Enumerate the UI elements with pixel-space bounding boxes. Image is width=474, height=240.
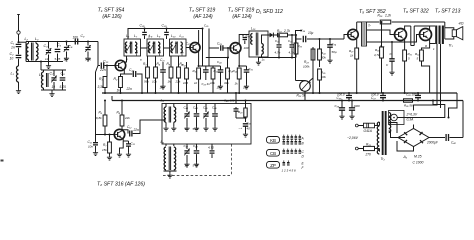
svg-text:100k: 100k [303, 65, 310, 69]
svg-text:C₃₆: C₃₆ [337, 96, 343, 100]
wire AGC line [206, 47, 229, 59]
svg-text:R₂₉: R₂₉ [378, 14, 384, 18]
svg-text:10: 10 [185, 127, 189, 131]
ground tank1 [46, 62, 51, 69]
svg-text:5-25: 5-25 [85, 58, 91, 62]
resistor R1 [98, 66, 108, 89]
trimmer capacitor C6 [64, 40, 73, 61]
label transistor T4 type [228, 8, 255, 20]
label transistor T2 type [97, 181, 145, 187]
wire tank2 bottom [41, 89, 66, 91]
svg-text:2,2k: 2,2k [384, 14, 391, 18]
svg-text:(AF 126): (AF 126) [102, 14, 122, 20]
svg-text:L₁₀: L₁₀ [171, 34, 176, 38]
wire right rail drop [462, 101, 464, 138]
svg-text:2=6,3V: 2=6,3V [406, 113, 418, 117]
bridge rectifier D2 [397, 125, 429, 152]
svg-text:R₂₂ 5k: R₂₂ 5k [297, 94, 306, 98]
wire driver sec to T7 base [367, 35, 420, 43]
wire T2 emitter [117, 138, 123, 157]
capacitor C35 [296, 29, 317, 81]
resistor R20 [294, 34, 303, 58]
svg-text:C₃₁: C₃₁ [249, 67, 253, 71]
svg-text:5-25: 5-25 [60, 85, 67, 89]
svg-text:C₆: C₆ [69, 45, 73, 49]
trimmer capacitor C43 [184, 104, 190, 132]
wire detector to volume [296, 31, 303, 36]
svg-text:5-35: 5-35 [193, 127, 199, 131]
potentiometer R22 [296, 81, 311, 101]
label transistor T5 type [359, 9, 386, 15]
svg-text:100,0: 100,0 [337, 93, 345, 97]
svg-text:T₂ SFT 316 (AF 126): T₂ SFT 316 (AF 126) [97, 181, 145, 187]
wire lamp rail [404, 99, 445, 117]
resistor R3 [143, 56, 149, 93]
capacitor C32 [275, 34, 282, 58]
resistor R7 [102, 133, 112, 160]
IF transformer L6 L7 [124, 34, 141, 56]
resistor R31 [403, 50, 412, 94]
svg-text:10µ: 10µ [308, 31, 314, 35]
wire T5 emitter [356, 38, 358, 48]
wire osc base left [96, 135, 106, 142]
svg-text:100: 100 [244, 46, 249, 50]
svg-text:A: A [301, 137, 304, 141]
svg-text:3,3k: 3,3k [98, 85, 104, 89]
resistor R4 [152, 56, 161, 94]
svg-text:C₄₆: C₄₆ [212, 106, 217, 110]
svg-text:4,7n: 4,7n [275, 51, 281, 55]
resistor R10 [193, 68, 201, 93]
trimmer capacitor C47 [184, 144, 190, 168]
svg-text:1 2 3 4 5 6: 1 2 3 4 5 6 [282, 169, 297, 173]
svg-text:C₄₈: C₄₈ [193, 144, 198, 148]
band switch row KB [267, 135, 305, 146]
svg-text:T₆ SFT 322: T₆ SFT 322 [403, 9, 429, 15]
label supply voltage [347, 136, 359, 140]
wire R6 to collector [121, 126, 128, 134]
capacitor C2 [10, 52, 22, 61]
svg-text:C₄₅: C₄₅ [203, 106, 208, 110]
resistor R19 [277, 29, 296, 37]
node antenna tap [17, 41, 26, 43]
svg-text:40: 40 [247, 127, 251, 131]
wire T5 collector [356, 22, 358, 31]
capacitor C1 [11, 41, 22, 50]
svg-text:50µ: 50µ [332, 50, 337, 54]
resistor R14 [233, 68, 242, 94]
wire T7 collector [414, 26, 429, 30]
capacitor C39 [335, 99, 346, 119]
svg-text:1k: 1k [194, 81, 198, 85]
svg-text:C₄₀: C₄₀ [451, 141, 457, 145]
svg-text:C₈: C₈ [61, 72, 66, 76]
svg-text:KB: KB [270, 138, 276, 143]
svg-text:R₃₀: R₃₀ [375, 48, 380, 52]
svg-text:1000: 1000 [354, 104, 361, 108]
resistor R32 [415, 50, 430, 93]
wire rail supply [112, 100, 463, 102]
label lamp [406, 113, 418, 122]
svg-text:10: 10 [10, 57, 14, 61]
page mark [1, 160, 4, 162]
resistor R5 [96, 111, 107, 127]
svg-text:C₂₈: C₂₈ [217, 42, 223, 46]
capacitor C48b [193, 144, 200, 168]
inductor L6 [161, 140, 177, 178]
wire battery to winding [379, 122, 381, 152]
wire base T1 [105, 64, 116, 66]
svg-text:10: 10 [52, 85, 56, 89]
resistor R30 bias [374, 21, 383, 93]
capacitor C33 [288, 34, 295, 58]
wire speaker loop [445, 22, 454, 39]
wire T4 collector [239, 35, 249, 45]
lamp box [389, 111, 405, 125]
wire pot wiper [310, 47, 314, 81]
svg-text:ZP: ZP [270, 163, 276, 168]
wire interstage [209, 47, 219, 49]
svg-text:100: 100 [183, 81, 188, 85]
svg-text:T₇ SFT 213: T₇ SFT 213 [435, 9, 461, 15]
oscillator injection line [96, 66, 99, 142]
capacitor C21 [160, 58, 166, 90]
svg-text:C 1000: C 1000 [413, 161, 424, 165]
svg-text:C₃₄: C₃₄ [332, 42, 337, 46]
switch position numbers [282, 169, 297, 173]
svg-text:T₁ SFT 354: T₁ SFT 354 [98, 8, 125, 14]
wire driver sec to T6 base [367, 30, 395, 35]
svg-text:L₄: L₄ [39, 73, 43, 77]
output transformer Tr1 [430, 26, 454, 48]
wire rail ground [102, 92, 457, 94]
capacitor C40 electrolytic [426, 134, 463, 145]
svg-text:R: R [425, 44, 427, 48]
label transistor T3 type [189, 8, 216, 20]
wire T6 collector [405, 26, 411, 30]
battery terminal lower [355, 147, 363, 150]
resistor R28 [364, 143, 380, 157]
svg-text:L₃: L₃ [35, 37, 39, 41]
svg-text:L₁₃: L₁₃ [251, 27, 256, 31]
capacitor C30 [243, 34, 251, 50]
svg-text:G41A: G41A [364, 129, 373, 133]
resistor R13 [224, 58, 234, 94]
ferrite core [32, 43, 34, 61]
wire to C10 [98, 42, 100, 66]
antenna input wire [17, 14, 20, 42]
wire tank1 top [26, 41, 63, 43]
resistor R6 [117, 111, 131, 127]
wire T4 emitter [238, 52, 240, 66]
resistor R2 [114, 69, 125, 93]
wire ground rail right drop [447, 93, 457, 119]
label speaker impedance [459, 22, 464, 26]
svg-text:C₁₀: C₁₀ [103, 60, 109, 64]
capacitor C29 [162, 24, 169, 40]
inductor L5 [161, 99, 177, 132]
svg-text:10: 10 [185, 164, 189, 168]
svg-text:−+: −+ [239, 126, 243, 130]
wire rail left drop [111, 96, 113, 101]
driver transformer Tr primary [357, 22, 367, 46]
IF transformer L10 L11 [170, 34, 187, 56]
capacitor C24 [213, 60, 223, 90]
capacitor C5 [55, 42, 62, 62]
svg-text:D₁ SFD 112: D₁ SFD 112 [256, 9, 283, 15]
svg-text:C₃₅: C₃₅ [300, 29, 306, 33]
wire can2 to can3 [164, 47, 170, 49]
capacitor C48 [224, 92, 239, 118]
resistor R23 [303, 49, 315, 70]
transformer Tr2 [377, 111, 390, 161]
wire tank1 bottom [26, 61, 63, 63]
svg-text:1n: 1n [11, 46, 15, 50]
svg-text:(AF 124): (AF 124) [193, 14, 213, 20]
label diode D1 type [256, 9, 283, 15]
svg-text:4,70: 4,70 [208, 146, 214, 150]
wire osc box mid [162, 119, 166, 121]
wire detector gnd [256, 57, 265, 65]
speaker [452, 27, 463, 40]
transistor T3 [190, 43, 200, 53]
capacitor C28 [217, 42, 231, 51]
resistor R23b [238, 99, 247, 122]
wire secondary return 1 [414, 44, 438, 111]
inductor L2 ferrite winding [27, 42, 29, 62]
battery terminal upper [355, 124, 363, 127]
capacitor C38 rail [406, 92, 421, 102]
svg-text:10k: 10k [210, 81, 215, 85]
wire T7 emitter [422, 39, 430, 50]
svg-text:C₃₀: C₃₀ [246, 34, 251, 38]
wire tank2 top [40, 60, 66, 70]
svg-text:270: 270 [365, 153, 372, 157]
wire R5 to base [104, 126, 114, 136]
svg-text:C₂₁: C₂₁ [160, 58, 165, 62]
capacitor C20 emitter bypass [121, 68, 144, 94]
dashed switch linkage [163, 144, 232, 176]
svg-text:C₁₁: C₁₁ [88, 140, 92, 144]
trimmer capacitor C7 [50, 70, 57, 90]
svg-text:C₃₈ 100,0: C₃₈ 100,0 [406, 93, 419, 97]
svg-text:R₂₈: R₂₈ [366, 143, 372, 147]
svg-text:CB: CB [270, 151, 276, 156]
svg-text:L₅: L₅ [161, 99, 165, 103]
svg-text:R₂₆ 56: R₂₆ 56 [404, 104, 413, 108]
svg-text:1k: 1k [117, 89, 121, 93]
svg-text:100,0: 100,0 [371, 93, 379, 97]
svg-text:22n: 22n [133, 128, 140, 132]
label transistor T7 type [435, 9, 461, 15]
wire R23 gnd [312, 70, 314, 94]
svg-text:C₄₄: C₄₄ [193, 106, 198, 110]
svg-text:5-35: 5-35 [193, 164, 199, 168]
transistor T5 [348, 29, 358, 39]
capacitor C11 [88, 140, 99, 156]
capacitor C38a [386, 41, 395, 75]
svg-text:C₂₃ 4n: C₂₃ 4n [202, 82, 211, 86]
svg-text:(AF 124): (AF 124) [232, 14, 252, 20]
resistor R12 [182, 62, 189, 93]
wire driver base [344, 35, 348, 40]
svg-text:L₁₁: L₁₁ [180, 34, 184, 38]
transistor T2 [114, 129, 124, 139]
svg-text:2,7k: 2,7k [283, 29, 290, 33]
svg-text:−2,06V: −2,06V [347, 136, 359, 140]
transistor T7 [420, 29, 432, 41]
svg-text:12: 12 [45, 57, 49, 61]
svg-text:R₁₉: R₁₉ [277, 29, 282, 33]
capacitor C26 [140, 24, 147, 40]
svg-text:R₂₃: R₂₃ [304, 60, 310, 64]
svg-text:0,3A: 0,3A [407, 118, 415, 122]
wire C35 to base [316, 38, 344, 40]
svg-text:4,7k: 4,7k [374, 53, 380, 57]
wire secondary return 2 [440, 44, 442, 108]
svg-text:C₂₀: C₂₀ [129, 68, 135, 72]
svg-text:C₂₆: C₂₆ [140, 24, 146, 28]
wire [18, 59, 20, 66]
oscillator coil box [162, 104, 251, 145]
IF transformer L8 L9 [147, 34, 164, 56]
wire winding to bridge [389, 123, 406, 138]
wire tank1 left [25, 42, 27, 62]
capacitor C37 rail [371, 92, 386, 102]
svg-text:1k: 1k [350, 54, 354, 58]
resistor R25 [318, 69, 327, 94]
svg-text:T₄ SFT 319: T₄ SFT 319 [228, 8, 255, 14]
svg-text:R₃₁: R₃₁ [408, 52, 412, 56]
svg-text:15k: 15k [102, 148, 107, 152]
label transistor T6 type [403, 9, 429, 15]
trimmer capacitor C4 [85, 40, 91, 61]
resistor R8 [167, 56, 173, 93]
svg-text:10k: 10k [152, 80, 157, 84]
capacitor C44 [193, 104, 200, 132]
transistor T6 [395, 29, 407, 41]
phase splitter link [411, 26, 414, 46]
capacitor C36a bypass [327, 39, 337, 63]
svg-text:C₂₄: C₂₄ [217, 60, 222, 64]
capacitor C13 emitter [123, 141, 135, 157]
capacitor C36 rail [337, 92, 353, 102]
capacitor C22 [198, 65, 211, 86]
wire T1 collector [124, 56, 126, 62]
svg-text:22n: 22n [126, 87, 133, 91]
svg-text:56k: 56k [144, 80, 149, 84]
label values texture [126, 24, 435, 62]
ground tank2 [49, 90, 54, 97]
resistor R29 feedback [378, 14, 392, 24]
wire top bus audio [357, 21, 445, 23]
svg-text:10k: 10k [321, 75, 326, 79]
ground [16, 89, 21, 94]
svg-text:33k: 33k [224, 81, 229, 85]
label transistor T1 type [98, 8, 125, 20]
capacitor C31 [238, 65, 253, 90]
capacitor C41 [349, 99, 360, 119]
label bridge type [403, 155, 424, 165]
wire coupling top [63, 41, 98, 43]
svg-text:5-25: 5-25 [55, 57, 61, 61]
capacitor C10 [99, 60, 109, 73]
capacitor C9 [73, 34, 85, 45]
svg-text:Δ₂: Δ₂ [403, 155, 408, 159]
resistor R24 [318, 39, 327, 67]
svg-text:1k: 1k [235, 82, 239, 86]
wire [18, 48, 20, 55]
wire T3 emitter [198, 51, 200, 66]
svg-text:10n: 10n [217, 86, 222, 90]
svg-text:10n: 10n [88, 145, 93, 149]
svg-text:1k: 1k [168, 80, 172, 84]
transistor T1 [115, 60, 125, 70]
svg-text:100: 100 [73, 36, 79, 40]
capacitor C46 [212, 104, 218, 132]
inductor L4 winding [39, 70, 48, 90]
wire [18, 82, 20, 89]
svg-text:6,8k: 6,8k [96, 116, 102, 120]
svg-text:4Ω: 4Ω [459, 22, 464, 26]
wire IF top bus [128, 29, 203, 40]
svg-text:L₆: L₆ [161, 140, 165, 144]
variable capacitor C3 [44, 42, 52, 62]
svg-text:Tr₂: Tr₂ [381, 157, 386, 161]
trimmer capacitor C45 [203, 104, 209, 132]
svg-text:R₁: R₁ [99, 77, 103, 81]
svg-text:10n: 10n [160, 86, 165, 90]
wire R2 to rail [119, 88, 121, 95]
capacitor C8 [60, 70, 67, 90]
svg-text:50k: 50k [321, 56, 326, 60]
capacitor C49 electrolytic [239, 121, 252, 137]
svg-text:10: 10 [64, 58, 68, 62]
svg-text:R₂₄: R₂₄ [321, 51, 326, 55]
wire T3 collector loop [199, 27, 209, 66]
wire T6 emitter [404, 39, 406, 50]
svg-text:T₃ SFT 319: T₃ SFT 319 [189, 8, 216, 14]
diode G41A [364, 123, 380, 133]
svg-text:2000µF: 2000µF [426, 141, 439, 145]
svg-text:10n: 10n [243, 86, 248, 90]
svg-text:R₂₅: R₂₅ [321, 71, 326, 75]
wire AGC return [259, 56, 296, 58]
svg-text:1c: 1c [262, 58, 266, 62]
wire box to bus [236, 117, 247, 119]
resistor R27 emitter [349, 48, 359, 94]
IF transformer L13 L14 detector [249, 27, 268, 58]
band switch row CB [267, 149, 305, 159]
svg-text:22k: 22k [124, 116, 130, 120]
wire R6 feed [121, 99, 123, 115]
dial lamp [389, 114, 405, 121]
svg-text:C₅: C₅ [57, 43, 62, 47]
svg-text:C₃: C₃ [44, 44, 49, 48]
svg-text:C₂₉: C₂₉ [162, 24, 168, 28]
wire R1 to rail [104, 88, 106, 95]
svg-text:C₄₈ 100: C₄₈ 100 [224, 99, 235, 103]
svg-text:C₂: C₂ [10, 52, 15, 56]
resistor R11 [209, 66, 218, 93]
band switch row ZP [267, 160, 305, 169]
capacitor C49b [208, 144, 215, 159]
svg-text:M 25: M 25 [414, 155, 422, 159]
svg-text:R₁₀: R₁₀ [193, 69, 198, 73]
resistor R9 [175, 56, 184, 94]
wire R5 feed [104, 99, 106, 115]
svg-text:R₂₀: R₂₀ [298, 44, 303, 48]
